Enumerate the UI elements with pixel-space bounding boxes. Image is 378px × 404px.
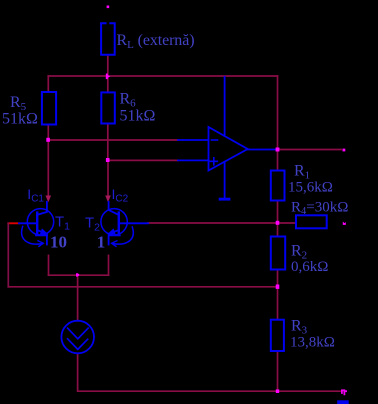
wire R2 bottom to node xyxy=(277,270,279,287)
op-amp ground stub xyxy=(224,162,226,198)
current arrow annotation at T1 xyxy=(22,227,42,245)
node inverting input junction xyxy=(46,138,50,142)
node ground rail junction xyxy=(276,389,279,393)
node emitter rail junction xyxy=(76,273,80,276)
resistor R4 body xyxy=(296,215,327,228)
svg-text:13,8kΩ: 13,8kΩ xyxy=(290,335,335,351)
svg-text:10: 10 xyxy=(50,233,67,252)
op-amp plus sign xyxy=(210,158,217,165)
wire current IC2 arrow down to T2 collector xyxy=(107,160,109,196)
svg-text:51kΩ: 51kΩ xyxy=(2,111,38,128)
wire inverting input blue stub xyxy=(178,139,209,141)
resistor R2 body xyxy=(271,237,285,270)
svg-text:1: 1 xyxy=(97,233,106,252)
wire R1 bottom through node to R2 top xyxy=(277,201,279,237)
ground symbol bottom right xyxy=(337,400,349,404)
current source I1 body xyxy=(61,321,94,354)
svg-text:T2: T2 xyxy=(85,215,100,234)
wire emitter node to current source xyxy=(77,275,79,321)
node ground pin bottom right xyxy=(342,390,346,394)
svg-text:RL (externă): RL (externă) xyxy=(117,32,195,51)
op-amp minus sign xyxy=(212,139,218,141)
wire feedback horizontal to R2-R3 node xyxy=(8,286,277,288)
wire left feedback vertical xyxy=(7,223,9,286)
node R4 right pin xyxy=(343,222,346,225)
wire R5 top lead xyxy=(47,76,49,92)
node RL junction xyxy=(106,74,111,80)
op-amp output stub xyxy=(248,149,277,151)
wire R6 bottom to non-inverting input xyxy=(108,124,178,161)
node pin above RL xyxy=(107,6,110,9)
wire emitter rail xyxy=(49,274,109,276)
transistor T1 body xyxy=(19,202,54,245)
wire current source bottom to ground rail xyxy=(78,353,340,391)
svg-text:IC1: IC1 xyxy=(27,186,44,204)
wire R5 bottom to inverting input xyxy=(48,125,178,141)
wire R3 bottom to ground rail xyxy=(277,351,279,391)
ground bar xyxy=(219,198,231,201)
svg-text:R4=30kΩ: R4=30kΩ xyxy=(291,199,348,217)
wire top rail xyxy=(48,75,277,77)
wire output node to right pin xyxy=(278,149,342,151)
node non-inverting input junction xyxy=(106,158,110,162)
wire T2 base net to R1-R2 node and R4 xyxy=(148,222,296,224)
svg-text:15,6kΩ: 15,6kΩ xyxy=(288,180,333,196)
current arrow annotation at T2 xyxy=(113,227,133,244)
wire node to R3 top xyxy=(277,287,279,320)
svg-text:IC2: IC2 xyxy=(112,186,129,204)
op-amp power stub xyxy=(224,77,226,136)
svg-text:51kΩ: 51kΩ xyxy=(120,108,156,125)
node R2-R3 junction xyxy=(276,285,280,289)
wire current IC1 arrow down to T1 collector xyxy=(47,140,49,197)
resistor RL body xyxy=(101,23,115,55)
op-amp U1 body xyxy=(209,127,248,171)
node output pin xyxy=(343,149,346,152)
resistor R5 body xyxy=(42,92,56,125)
svg-text:0,6kΩ: 0,6kΩ xyxy=(291,259,328,275)
wire R6 top lead xyxy=(107,76,109,92)
wire right vertical from rail to op-amp output node xyxy=(277,76,279,171)
wire T1 emitter lead xyxy=(48,255,50,275)
node op-amp output junction xyxy=(276,148,280,152)
wire RL bottom lead xyxy=(107,55,109,76)
wire non-inverting input blue stub xyxy=(178,159,209,161)
wire T2 emitter lead xyxy=(108,255,110,275)
svg-text:T1: T1 xyxy=(55,213,70,232)
wire red stub at T1 base xyxy=(8,222,19,224)
node R1-R2-R4 junction xyxy=(276,221,280,225)
resistor R3 body xyxy=(271,320,284,351)
resistor R1 body xyxy=(271,171,285,201)
current source chevrons xyxy=(68,328,89,349)
transistor T2 body xyxy=(101,202,148,245)
resistor R6 body xyxy=(101,92,115,123)
